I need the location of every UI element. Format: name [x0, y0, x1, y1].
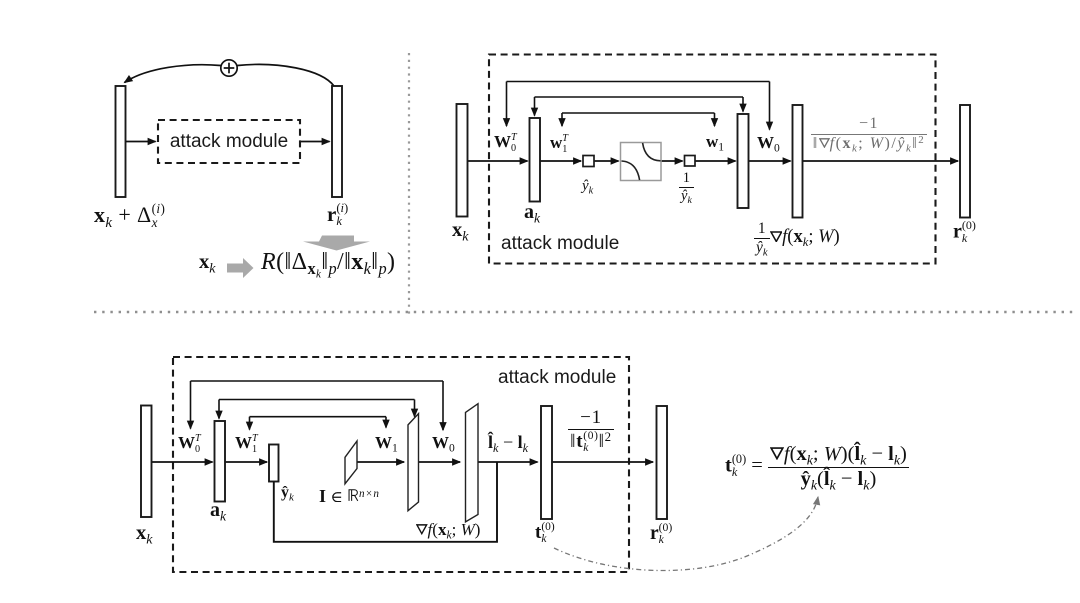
- wire: arrow attack module to output bar (top-left panel): [301, 141, 330, 143]
- wire: arrow W_1 plane to gradient plane, W_0 stage (bottom): [419, 461, 461, 463]
- wire: arrow x_k bar to a_k bar, W_0^T stage (bottom): [152, 461, 213, 463]
- arrow down into a_k bar top (bottom): [218, 400, 220, 419]
- label: gray gain -1/||grad f/y||^2 over long arrow (top-right): [804, 116, 934, 153]
- label: attack module (top-right box): [501, 234, 619, 253]
- wire: arc with arrowhead from adder into input bar (top-left panel): [125, 65, 221, 83]
- arrow down to w_1 label (top-right): [714, 113, 716, 126]
- label: attack module (top-left box): [158, 132, 300, 151]
- label: t_k^(0) under bar (bottom): [535, 522, 555, 545]
- label: y_k hat under scalar node (top-right): [582, 179, 593, 194]
- wire: long arrow with -1/||.||^2 gain to r_k^(0) bar (top-right): [803, 160, 959, 162]
- label: x_k before gray mapping arrow (top-left): [199, 252, 215, 273]
- wire: arrow scalar node to w_1 bar (top-right): [695, 160, 736, 162]
- wire: arrow a_k bar to scalar node, w_1^T stage (top-right): [540, 160, 581, 162]
- label: a_k under activation bar (top-right): [524, 202, 540, 222]
- identity matrix plane I (bottom): [345, 441, 357, 484]
- dash-dot annotation arrow from t_k^(0) to equation: [554, 497, 818, 571]
- label: w_1 weight (top-right): [706, 133, 724, 150]
- gray block arrow right (maps x_k to R(...)): [227, 258, 254, 278]
- vector bar after w_1 (top-right): [738, 114, 749, 208]
- output vector bar r_k^(i) (top-left panel): [332, 86, 342, 197]
- label: y_k hat under logit bar (bottom): [281, 485, 294, 501]
- label: W_1 weight (bottom): [375, 434, 398, 451]
- inverse function block 1/x (top-right): [621, 143, 662, 181]
- label: W_1^T weight (bottom): [235, 434, 258, 455]
- label: 1/y_k hat under scalar node (top-right): [679, 171, 694, 204]
- label: gain -1/||t_k^(0)||^2 over arrow (bottom): [558, 408, 624, 454]
- label: I element-of R^(n x n) identity matrix (bottom): [319, 487, 380, 505]
- label: W_0 weight (top-right): [757, 134, 780, 151]
- panel separator: horizontal dotted divider: [94, 311, 1076, 313]
- label: equation t_k^(0) = grad f (x_k;W)(l hat - l)/(y hat (l hat - l)): [725, 444, 909, 490]
- label: R(||Delta||_p/||x_k||_p) robustness measure (top-left): [261, 250, 395, 275]
- label: x_k under input bar (top-right): [452, 220, 468, 241]
- wire: arrow w_1 bar to W_0 output bar (top-right): [749, 160, 791, 162]
- logit bar y_k hat (bottom): [269, 445, 279, 482]
- label: grad f(x_k;W) under gradient plane (bottom): [416, 521, 480, 538]
- wire: arrow with -1/||t||^2 gain to r_k^(0) bar (bottom): [552, 461, 653, 463]
- label: a_k under activation bar (bottom): [210, 500, 226, 520]
- wire: arrow gradient plane to t_k bar (bottom): [478, 461, 538, 463]
- arrow down to w_1^T label (top-right): [561, 113, 563, 126]
- gray block arrow down (under r_k^(i)): [303, 236, 370, 251]
- wire: arrow scalar node to inverse block (top-right): [594, 160, 619, 162]
- label: w_1^T weight (top-right): [550, 134, 568, 155]
- input vector bar x_k (top-right): [457, 104, 468, 217]
- label: W_0^T weight (bottom): [178, 434, 201, 455]
- panel separator: vertical dotted divider: [408, 53, 410, 316]
- adder (oplus) symbol: [221, 60, 237, 76]
- arrow down into w_1 bar top (top-right): [742, 97, 744, 112]
- label: l_k hat minus l_k (bottom): [488, 433, 528, 451]
- hidden activation bar a_k (top-right): [530, 118, 541, 202]
- wire: arrow identity plane to W_1 plane (bottom): [357, 461, 404, 463]
- label: r_k^(0) under output bar (top-right): [953, 219, 976, 244]
- label: W_0^T weight (top-right): [494, 133, 517, 154]
- wire: arrow input bar to attack module (top-left panel): [126, 141, 156, 143]
- weight-sharing wire W_0 (top-right, outermost): [507, 81, 770, 83]
- wire: feedback loop from y_k hat bar bottom to main line junction (bottom): [274, 462, 497, 542]
- weight-sharing wire W_1 (bottom, innermost): [250, 416, 387, 418]
- arrow down to W_1^T label (bottom): [249, 417, 251, 430]
- gradient plane grad f (bottom): [466, 404, 479, 522]
- wire: arrow x_k bar to a_k bar, W_0^T stage (top-right): [468, 160, 528, 162]
- scalar node 1/y_k (small square, top-right): [685, 156, 696, 167]
- label: r_k^(0) under output bar (bottom): [650, 522, 672, 546]
- gradient vector bar (1/y)grad f (top-right): [793, 105, 803, 218]
- weight-sharing wire w_1 (top-right, innermost): [562, 112, 715, 114]
- arrow down into W_1 plane top (bottom): [414, 400, 416, 417]
- weight-sharing wire a_k/bar (top-right, middle): [535, 96, 744, 98]
- label: x_k under input bar (bottom): [136, 523, 152, 544]
- arrow down to W_0^T label (bottom): [190, 381, 192, 429]
- arrow down to W_0^T label (top-right): [506, 82, 508, 127]
- attack module dashed box (top-right panel): [489, 55, 936, 264]
- wire: arrow a_k bar to y_k bar, W_1^T stage (bottom): [225, 461, 267, 463]
- weight-sharing wire a_k/plane (bottom, middle): [219, 399, 415, 401]
- scalar node y_k (small square, top-right): [583, 156, 594, 167]
- hidden activation bar a_k (bottom): [215, 421, 226, 502]
- input vector bar x_k (bottom): [141, 406, 152, 518]
- weight-sharing wire W_0 (bottom, outermost): [191, 380, 444, 382]
- input vector bar x_k + Delta (top-left panel): [116, 86, 126, 197]
- wire: arc from output bar r to adder (top-left panel): [238, 64, 335, 86]
- label: r_k^(i) under right bar (top-left): [327, 202, 348, 228]
- attack module dashed box (bottom panel): [173, 357, 629, 572]
- arrow down to W_0 label (top-right): [769, 82, 771, 130]
- output vector bar r_k^(0) (top-right): [960, 105, 970, 218]
- label: W_0 weight (bottom): [432, 434, 455, 451]
- arrow down to W_0 label (bottom): [442, 381, 444, 430]
- arrow down into a_k bar top (top-right): [534, 97, 536, 116]
- arrow down to W_1 label (bottom): [385, 417, 387, 428]
- label: (1/y_k)grad f under gradient bar (top-right): [754, 221, 840, 257]
- wire: arrow inverse block to scalar node 1/y (top-right): [661, 160, 683, 162]
- label: attack module (bottom box): [498, 368, 616, 387]
- label: x_k + Delta_x^(i) under left bar (top-left): [94, 202, 165, 229]
- vector bar t_k^(0) (bottom): [541, 406, 552, 519]
- attack module dashed box (top-left panel): [158, 120, 300, 163]
- weight plane after W_1 (bottom): [408, 414, 419, 511]
- output vector bar r_k^(0) (bottom): [657, 406, 668, 519]
